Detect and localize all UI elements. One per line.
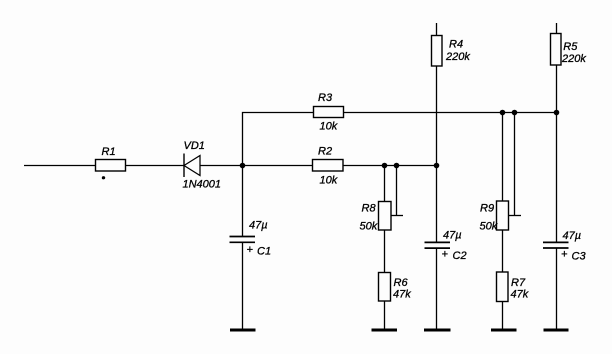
wire R8 wiper arm	[391, 215, 403, 217]
svg-text:R3: R3	[318, 92, 333, 104]
node F junction dot	[554, 110, 560, 116]
svg-text:47µ: 47µ	[563, 230, 582, 242]
svg-text:R8: R8	[362, 202, 377, 214]
wire node A down to C1	[242, 166, 244, 237]
wire R4 to node C	[436, 66, 438, 166]
capacitor C2	[425, 230, 467, 263]
resistor R2	[313, 146, 344, 187]
svg-text:C1: C1	[257, 246, 271, 258]
wire R3 to node F	[344, 112, 557, 114]
svg-text:1N4001: 1N4001	[183, 179, 222, 191]
wire R7 to ground	[502, 302, 504, 331]
resistor R1	[96, 146, 126, 171]
wire node A to R2	[243, 165, 313, 167]
resistor R3	[314, 92, 344, 133]
trimmer R9	[480, 201, 509, 233]
wire node D1 down to R9	[502, 113, 504, 202]
svg-text:R5: R5	[563, 41, 578, 53]
svg-text:+: +	[561, 249, 568, 261]
svg-text:10k: 10k	[320, 175, 338, 187]
wire R6 to ground	[384, 301, 386, 330]
svg-text:R7: R7	[511, 277, 526, 289]
svg-text:VD1: VD1	[184, 140, 205, 152]
R1 stray mark	[102, 176, 105, 179]
ground C2	[424, 329, 451, 332]
wire VD1 to node A	[200, 165, 243, 167]
diode VD1	[183, 140, 222, 191]
svg-text:47µ: 47µ	[443, 230, 462, 242]
wire node F down to C3	[556, 113, 558, 243]
wire C2 to ground	[436, 248, 438, 330]
node B2 junction dot	[394, 163, 400, 169]
wire node B2 down to R8 wiper	[396, 166, 398, 216]
node D1 junction dot	[500, 110, 506, 116]
svg-text:R4: R4	[449, 38, 463, 50]
svg-text:+: +	[247, 244, 254, 256]
resistor R7	[497, 272, 529, 302]
wire R9 to R7	[502, 230, 504, 272]
trimmer R8	[360, 202, 392, 233]
svg-text:R2: R2	[318, 146, 332, 158]
ground C1	[230, 329, 256, 332]
node B1 junction dot	[382, 163, 388, 169]
capacitor C3	[543, 230, 586, 263]
svg-text:R9: R9	[480, 203, 494, 215]
svg-text:R1: R1	[102, 146, 116, 158]
wire R8 to R6	[384, 230, 386, 273]
wire R4 top	[436, 23, 438, 36]
svg-text:47k: 47k	[511, 289, 529, 301]
wire C3 to ground	[556, 248, 558, 330]
node A junction dot	[240, 163, 246, 169]
svg-text:R6: R6	[394, 277, 409, 289]
svg-text:47k: 47k	[393, 289, 411, 301]
svg-text:47µ: 47µ	[249, 220, 268, 232]
svg-text:50k: 50k	[480, 221, 498, 233]
svg-text:C3: C3	[572, 251, 587, 263]
wire node A up and right to R3	[243, 113, 314, 166]
resistor R5	[551, 34, 587, 66]
wire R1 to VD1	[126, 165, 185, 167]
capacitor C1	[230, 220, 272, 258]
wire R5 to node F	[556, 65, 558, 113]
wire R5 top	[556, 23, 558, 34]
wire node D2 down to R9 wiper	[514, 113, 516, 216]
wire C1 to ground	[242, 242, 244, 330]
svg-text:C2: C2	[453, 250, 467, 262]
wire input left	[24, 165, 96, 167]
ground R6	[372, 329, 398, 332]
node D2 junction dot	[512, 110, 518, 116]
svg-text:220k: 220k	[445, 51, 470, 63]
wire node C down to C2	[436, 166, 438, 243]
svg-text:+: +	[442, 249, 449, 261]
resistor R4	[432, 36, 471, 67]
svg-text:220k: 220k	[561, 53, 586, 65]
wire R9 wiper arm	[509, 215, 522, 217]
node C junction dot	[434, 163, 440, 169]
resistor R6	[379, 273, 412, 302]
ground R7	[491, 329, 517, 332]
svg-text:10k: 10k	[320, 121, 338, 133]
wire R2 to node C	[343, 165, 437, 167]
ground C3	[544, 329, 569, 332]
svg-text:50k: 50k	[360, 221, 378, 233]
wire node B1 down to R8	[384, 166, 386, 202]
